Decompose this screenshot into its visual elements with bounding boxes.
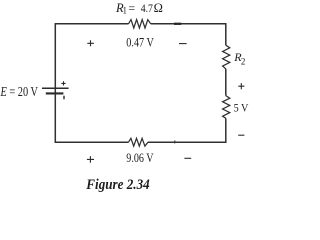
wire: right vertical lower (5V resistor to bottom-right corner) <box>225 118 227 143</box>
svg-text:0.47 V: 0.47 V <box>126 34 154 49</box>
resistor (9.06 V drop, bottom zigzag) <box>129 138 149 146</box>
battery bottom plate (-) <box>46 92 64 94</box>
wire: left vertical (through battery, top-left to bottom-left corner) <box>54 24 56 143</box>
svg-text:=: = <box>128 1 135 15</box>
wire: bottom horizontal left of resistor <box>55 141 129 143</box>
svg-text:1: 1 <box>123 6 128 16</box>
junction tick on bottom wire <box>174 140 176 143</box>
polarity + (left of 0.47 V) <box>87 40 94 46</box>
polarity - (below 5 V) <box>238 134 244 136</box>
svg-text:2: 2 <box>241 56 246 66</box>
wire: right vertical upper (corner to R2) <box>225 23 227 45</box>
svg-text:4.7: 4.7 <box>141 1 153 15</box>
polarity + (left of 9.06 V) <box>87 156 94 163</box>
resistor (5 V drop, right lower zigzag) <box>223 96 230 119</box>
battery top plate (+) <box>42 87 69 89</box>
wire: thick dark segment on top wire <box>174 23 181 25</box>
svg-text:Figure 2.34: Figure 2.34 <box>85 177 149 193</box>
battery + polarity mark <box>61 81 65 85</box>
polarity - (right of 0.47 V) <box>179 43 187 45</box>
svg-text:E = 20 V: E = 20 V <box>0 84 38 99</box>
resistor R2 (zigzag, right upper) <box>223 45 230 69</box>
wire: top horizontal right of R1 <box>151 23 227 25</box>
polarity - (right of 9.06 V) <box>184 157 191 159</box>
svg-text:5 V: 5 V <box>234 101 249 115</box>
svg-text:Ω: Ω <box>154 1 163 15</box>
wire: right vertical middle (between R2 and 5V resistor) <box>225 69 227 96</box>
resistor R1 (zigzag, top) <box>129 20 151 28</box>
voltage source E (battery) <box>42 81 69 99</box>
wire: top horizontal left of R1 <box>55 23 129 25</box>
battery - tick mark <box>63 96 65 100</box>
svg-text:9.06 V: 9.06 V <box>126 150 154 165</box>
wire: bottom horizontal right of 9.06V resistor <box>148 141 227 143</box>
polarity + (above 5 V) <box>238 83 244 89</box>
